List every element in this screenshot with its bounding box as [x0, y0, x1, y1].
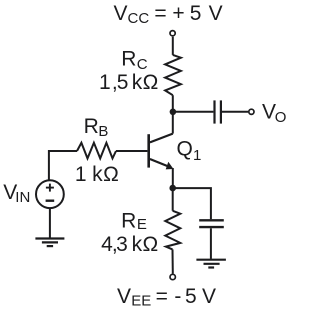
capacitor CE [199, 220, 224, 227]
svg-text:=: = [156, 285, 168, 308]
resistor RC [165, 55, 181, 95]
svg-text:5: 5 [117, 71, 129, 94]
wire collector node to Q1 collector [172, 113, 174, 134]
wire collector node to Cout [173, 111, 214, 113]
svg-text:O: O [275, 109, 287, 126]
ground (emitter bypass) [196, 260, 226, 268]
svg-text:1: 1 [99, 71, 111, 94]
wire RB to Q1 base [116, 150, 147, 152]
svg-text:-: - [174, 285, 181, 308]
svg-text:CC: CC [128, 10, 150, 27]
label RE [121, 209, 147, 233]
svg-text:Ω: Ω [103, 163, 119, 186]
svg-text:R: R [121, 48, 136, 71]
terminal Vo [249, 109, 254, 114]
terminal VCC [170, 31, 175, 36]
svg-text:E: E [137, 216, 147, 233]
label Vo [262, 101, 286, 126]
svg-text:k: k [132, 233, 143, 256]
net label VEE = - 5 V [117, 285, 216, 310]
transistor Q1 [149, 134, 174, 170]
wire emitter node to CE (corner) [173, 188, 211, 219]
svg-text:Ω: Ω [142, 233, 158, 256]
wire VIN to input ground [49, 208, 51, 238]
svg-text:3: 3 [116, 233, 128, 256]
node collector junction [170, 109, 177, 116]
net label VCC = + 5 V [114, 2, 223, 27]
svg-text:R: R [121, 209, 136, 232]
svg-text:+: + [172, 2, 184, 25]
wire Cout to Vo terminal [222, 111, 248, 113]
svg-text:k: k [92, 163, 103, 186]
label Q1 [177, 137, 202, 164]
source VIN [36, 180, 64, 208]
resistor RB [77, 143, 116, 159]
svg-text:IN: IN [15, 189, 30, 206]
svg-text:V: V [117, 285, 131, 308]
wire VIN to RB (corner) [49, 151, 77, 180]
svg-text:1: 1 [193, 147, 201, 164]
wire Q1 emitter to emitter node [172, 168, 174, 188]
svg-text:EE: EE [131, 293, 151, 310]
svg-text:5: 5 [185, 285, 197, 308]
svg-text:R: R [84, 115, 99, 138]
wire RC to collector node [172, 95, 174, 112]
svg-text:Ω: Ω [143, 71, 159, 94]
svg-text:V: V [209, 2, 223, 25]
value 1,5 kOhm (RC) [99, 71, 158, 94]
value 1 kOhm (RB) [75, 163, 119, 186]
svg-text:=: = [154, 2, 166, 25]
svg-text:V: V [202, 285, 216, 308]
wire CE to emitter ground [210, 228, 212, 259]
svg-text:V: V [114, 2, 128, 25]
node emitter junction [169, 185, 176, 192]
terminal VEE [170, 274, 175, 279]
label RC [121, 48, 148, 73]
svg-text:k: k [132, 71, 143, 94]
svg-text:1: 1 [75, 163, 87, 186]
resistor RE [165, 211, 180, 250]
svg-text:B: B [98, 123, 108, 140]
wire emitter node to RE [172, 188, 174, 211]
value 4,3 kOhm (RE) [101, 233, 158, 256]
label RB [84, 115, 109, 140]
wire VCC terminal to RC [172, 37, 174, 55]
svg-text:5: 5 [190, 2, 202, 25]
ground (input) [35, 239, 64, 247]
svg-text:Q: Q [177, 137, 193, 160]
capacitor Cout [215, 100, 221, 123]
wire RE to VEE terminal [172, 249, 174, 273]
label VIN [3, 181, 30, 206]
